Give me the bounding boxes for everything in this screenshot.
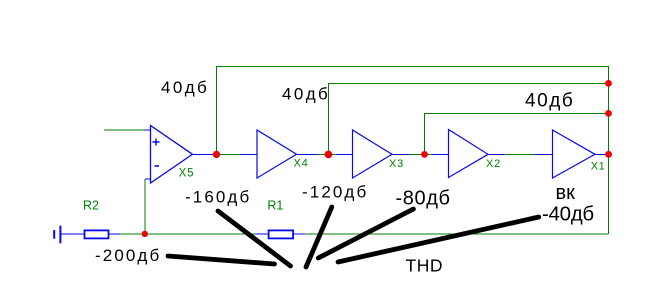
svg-text:40дб: 40дб <box>282 85 330 104</box>
svg-text:-120дб: -120дб <box>302 183 368 202</box>
svg-text:вк: вк <box>556 182 576 204</box>
svg-text:X3: X3 <box>389 158 404 170</box>
svg-text:-160дб: -160дб <box>185 187 251 206</box>
svg-text:X2: X2 <box>486 158 501 170</box>
svg-text:-40дб: -40дб <box>542 203 594 226</box>
svg-text:R1: R1 <box>267 199 283 213</box>
svg-text:40дб: 40дб <box>525 91 574 112</box>
svg-text:X4: X4 <box>294 157 309 169</box>
svg-text:-200дб: -200дб <box>95 246 161 265</box>
svg-text:R2: R2 <box>83 199 99 213</box>
svg-text:-80дб: -80дб <box>396 187 451 209</box>
svg-text:THD: THD <box>406 256 444 276</box>
svg-text:X5: X5 <box>179 168 195 180</box>
svg-text:X1: X1 <box>591 161 606 173</box>
svg-text:40дб: 40дб <box>161 78 209 97</box>
